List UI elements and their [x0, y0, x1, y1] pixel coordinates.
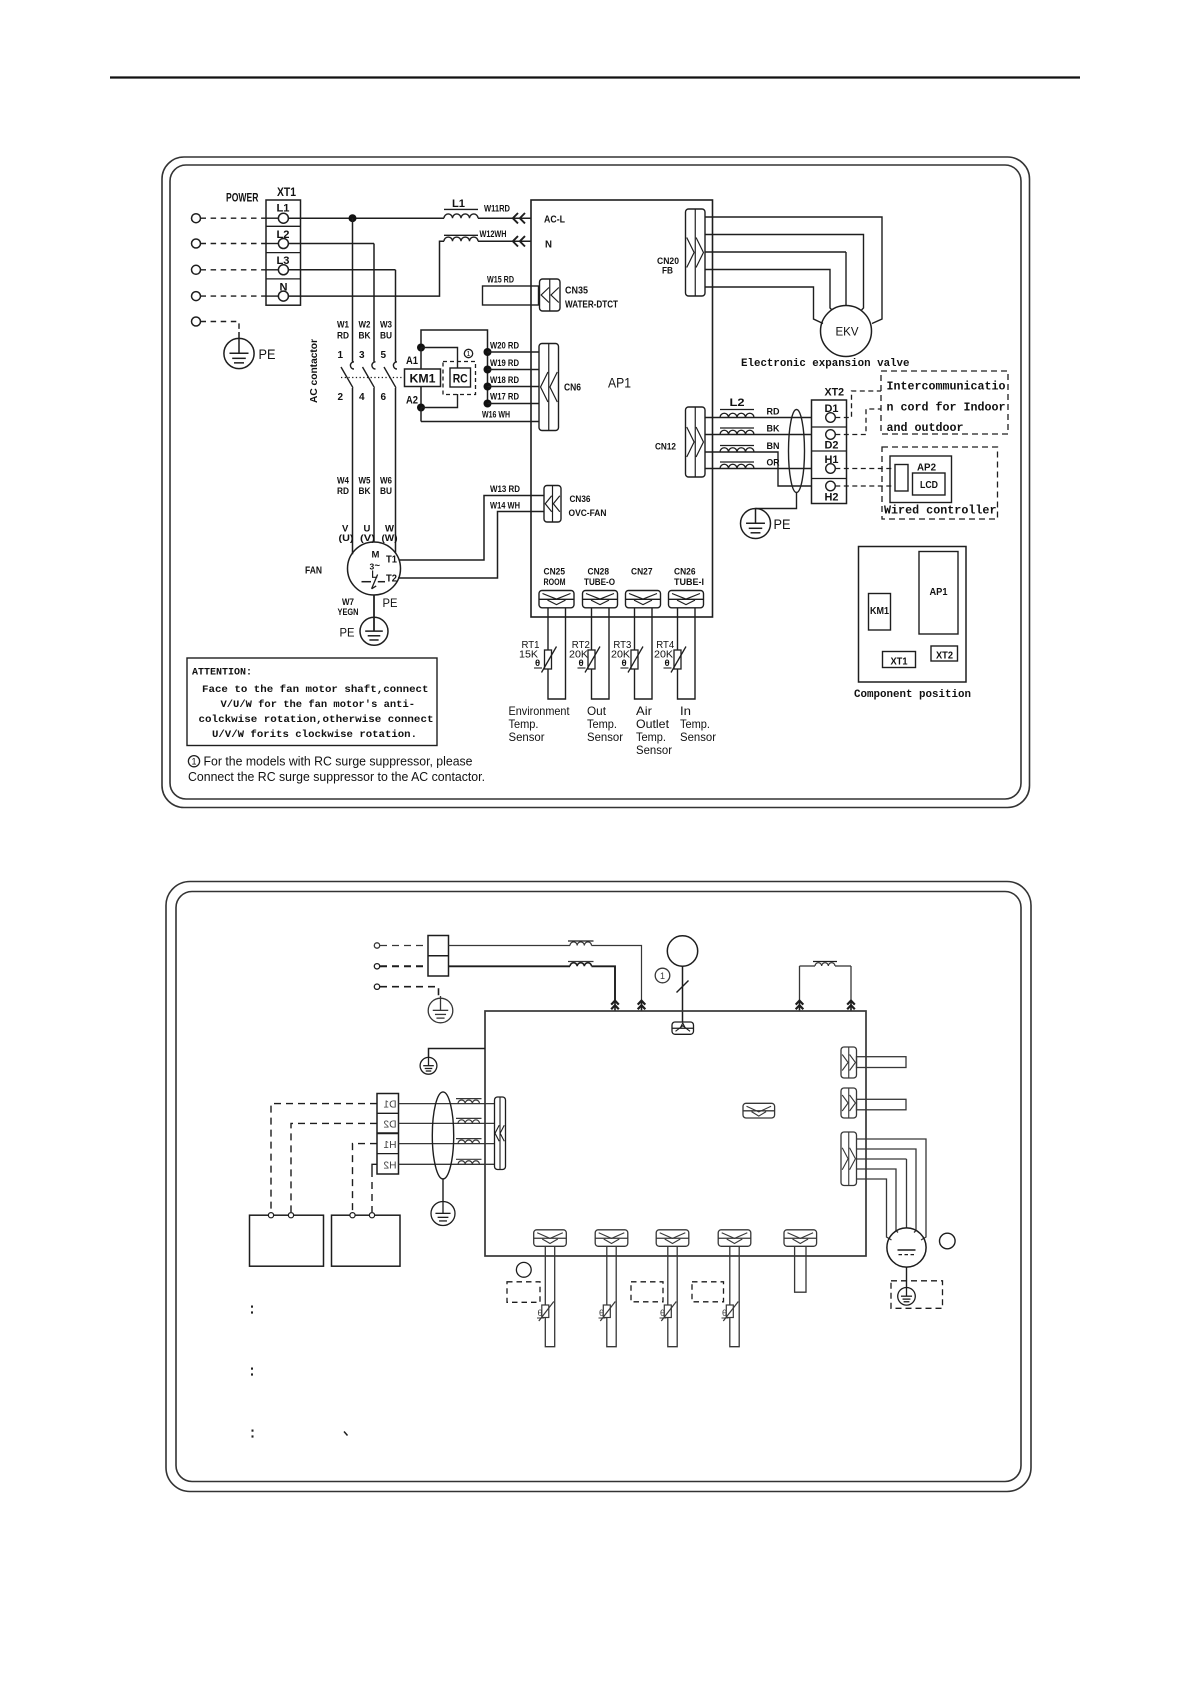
- svg-text:Intercommunicatio: Intercommunicatio: [887, 381, 1006, 394]
- svg-text:W15 RD: W15 RD: [487, 275, 514, 286]
- svg-text:Outlet: Outlet: [636, 717, 670, 731]
- thermistor (bottom 4): [726, 1305, 733, 1318]
- svg-text:Component position: Component position: [854, 689, 971, 701]
- bottom panel inner border: [176, 892, 1021, 1482]
- label pin D2 (mirrored): [383, 1120, 396, 1131]
- svg-text:PE: PE: [774, 516, 791, 532]
- svg-text:XT1: XT1: [891, 657, 908, 668]
- wire sensor probe 5 (bottom): [795, 1246, 806, 1292]
- connector (board mid, aux): [743, 1103, 775, 1118]
- wire dashed D2 to intercom box: [835, 409, 881, 435]
- wire L1 to inductor: [288, 217, 444, 219]
- wire W19 RD: [488, 369, 540, 371]
- wire dashed H2 to AP2: [835, 485, 895, 487]
- note box intercommunication cord: [881, 371, 1008, 434]
- connector CN6: [539, 344, 559, 431]
- wire L2 to W2 column: [288, 243, 374, 245]
- svg-text:Wired controller: Wired controller: [884, 505, 997, 518]
- dashed label box (sensor 1): [507, 1282, 540, 1303]
- wire dashed L1 input: [201, 217, 267, 219]
- svg-text:TUBE-I: TUBE-I: [674, 577, 704, 588]
- svg-text:W16 WH: W16 WH: [482, 410, 510, 421]
- svg-text:W12WH: W12WH: [480, 229, 507, 240]
- arrow into box (b2): [611, 1001, 619, 1005]
- svg-text:θ: θ: [722, 1308, 727, 1318]
- component position outline: [859, 547, 967, 683]
- svg-text:OVC-FAN: OVC-FAN: [569, 508, 607, 519]
- node input terminal b1: [374, 943, 379, 948]
- thermistor RT1: [545, 650, 552, 669]
- label AC contactor: [308, 339, 320, 403]
- connector CN27: [626, 591, 661, 608]
- wire dashed H1 drop: [353, 1144, 378, 1212]
- wire W1 column upper: [352, 218, 354, 362]
- note mark circled-1 (bottom): [655, 968, 670, 983]
- component position AP1: [919, 552, 958, 635]
- wire comm row 3 (bottom): [399, 1143, 495, 1145]
- wire T2 to CN36 (W14): [398, 512, 544, 579]
- svg-text:A1: A1: [406, 355, 418, 367]
- connector (board left, comm): [495, 1097, 506, 1170]
- board AP2 outline: [890, 456, 952, 503]
- svg-text:AP1: AP1: [608, 376, 631, 391]
- wire dashed L2 input: [201, 243, 267, 245]
- wire sensor probe 3 (bottom): [668, 1246, 677, 1346]
- svg-text:2: 2: [337, 392, 343, 403]
- svg-text:W1: W1: [337, 320, 350, 331]
- terminal XT1 L2: [278, 239, 288, 249]
- svg-text:Temp.: Temp.: [509, 717, 539, 731]
- board AP1 outline: [531, 200, 713, 617]
- wire W17 RD: [488, 403, 540, 405]
- connector CN35: [540, 279, 561, 311]
- connector on AP2: [895, 465, 908, 492]
- svg-text:In: In: [680, 704, 691, 718]
- svg-text:θ: θ: [599, 1308, 604, 1318]
- wire A2 down to W16: [420, 408, 422, 422]
- wire KM1 to A2: [420, 387, 422, 408]
- junction dot W18: [484, 383, 492, 391]
- svg-text:PE: PE: [340, 626, 355, 640]
- wire EKV 4: [705, 270, 832, 311]
- svg-text:BU: BU: [380, 331, 392, 342]
- svg-text:PE: PE: [259, 346, 276, 362]
- wire dashed input b3: [380, 987, 439, 996]
- indoor unit box 2 (bottom): [332, 1215, 401, 1266]
- thermistor (bottom 2): [603, 1305, 610, 1318]
- ferrite ring (CN12 wires): [789, 410, 805, 493]
- connector CN36: [544, 486, 561, 523]
- ground (power input, bottom): [428, 998, 453, 1023]
- component position XT2: [931, 646, 958, 661]
- svg-text:H2: H2: [825, 492, 839, 504]
- svg-text:1: 1: [467, 351, 471, 358]
- svg-text:AP2: AP2: [917, 463, 936, 474]
- connector CN12: [686, 407, 706, 477]
- junction dot W19: [484, 366, 492, 374]
- connector CN28: [583, 591, 618, 608]
- svg-text:Sensor: Sensor: [509, 730, 545, 744]
- svg-text:AC-L: AC-L: [544, 215, 565, 226]
- svg-text:BK: BK: [359, 331, 371, 342]
- wire stub 2: [857, 1099, 907, 1110]
- svg-text:W2: W2: [359, 320, 371, 331]
- junction dot W17: [484, 400, 492, 408]
- svg-text:W18 RD: W18 RD: [490, 375, 519, 386]
- label pin H2 (mirrored): [383, 1160, 396, 1171]
- svg-text:T2: T2: [386, 574, 397, 585]
- ground (ferrite, bottom): [431, 1202, 455, 1226]
- pin circle box2 b: [369, 1213, 374, 1218]
- terminal block XT1: [266, 200, 301, 305]
- valve EKV: [821, 306, 872, 357]
- contactor KM1 pole 2: [372, 362, 376, 369]
- wire W3 column lower: [395, 388, 397, 553]
- thermistor (bottom 1): [542, 1305, 549, 1318]
- ground (motor, bottom): [898, 1288, 916, 1306]
- svg-text:W20 RD: W20 RD: [490, 341, 519, 352]
- svg-text:1: 1: [660, 971, 665, 981]
- svg-text:YEGN: YEGN: [338, 607, 359, 618]
- connector (bottom sensor 3): [656, 1230, 689, 1247]
- connector (box top, compressor): [672, 1022, 694, 1034]
- dashed label box (sensor 3): [631, 1282, 663, 1302]
- thermistor RT3: [631, 650, 638, 669]
- svg-text:20K: 20K: [569, 650, 588, 661]
- contactor KM1 pole 1: [350, 362, 354, 369]
- svg-text:L2: L2: [730, 397, 745, 409]
- terminal block XT2: [812, 400, 847, 504]
- svg-text:V/U/W for the fan motor's anti: V/U/W for the fan motor's anti-: [221, 699, 416, 711]
- terminal XT1 N: [278, 291, 288, 301]
- svg-text:D2: D2: [383, 1120, 396, 1131]
- wire sensor probe 1 (bottom): [545, 1246, 554, 1346]
- svg-text:θ: θ: [538, 1308, 543, 1318]
- svg-text:XT1: XT1: [277, 185, 296, 199]
- wire compressor to connector: [682, 966, 684, 1022]
- wire ferrite to PE: [756, 493, 797, 509]
- wire sensor probe 2 (bottom): [607, 1246, 616, 1346]
- compressor circle (bottom): [667, 936, 697, 966]
- svg-text:1: 1: [337, 350, 343, 361]
- wire W1 column lower: [352, 388, 354, 554]
- terminal XT2 D2: [826, 430, 836, 440]
- svg-text:20K: 20K: [611, 650, 630, 661]
- wire dashed input b1: [380, 945, 428, 947]
- svg-text:OR: OR: [767, 458, 780, 469]
- node POWER input terminal 3: [192, 265, 201, 274]
- connector (right stub 2): [841, 1088, 857, 1118]
- wire input b2 to box: [449, 965, 571, 967]
- wire A1 to KM1: [420, 348, 422, 370]
- wire W2 column lower: [373, 388, 375, 542]
- wire dashed PE input: [201, 322, 240, 334]
- bottom panel outer border: [166, 882, 1031, 1492]
- wire motor 5: [857, 1179, 892, 1240]
- svg-text:W17 RD: W17 RD: [490, 392, 519, 403]
- inductor (input b2): [570, 963, 592, 967]
- wire A1 to RC: [421, 348, 458, 369]
- thermistor RT2: [588, 650, 595, 669]
- note tick mark: [344, 1432, 348, 1436]
- arrow into box (b1): [638, 1001, 646, 1005]
- svg-text:Electronic expansion valve: Electronic expansion valve: [741, 358, 910, 370]
- svg-text:CN28: CN28: [588, 567, 610, 578]
- svg-text:15K: 15K: [519, 650, 538, 661]
- pin circle box2 a: [350, 1213, 355, 1218]
- svg-text:Environment: Environment: [509, 704, 571, 718]
- wire motor 1: [857, 1139, 927, 1240]
- terminal XT2 H2: [826, 481, 836, 491]
- water sensor cable W15: [483, 286, 539, 305]
- svg-text:5: 5: [380, 350, 386, 361]
- svg-text:W5: W5: [359, 476, 372, 487]
- wire dashed N input: [201, 295, 267, 297]
- motor circle (bottom): [887, 1228, 926, 1267]
- terminal block (bottom left): [377, 1094, 399, 1175]
- svg-text:KM1: KM1: [410, 374, 437, 386]
- connector CN20: [686, 209, 706, 296]
- wire T1 to CN36 (W13): [399, 496, 545, 561]
- top panel outer border: [162, 157, 1030, 808]
- terminal XT2 D1: [826, 413, 836, 423]
- motor FAN: [348, 542, 401, 595]
- wire dashed D1 drop: [271, 1104, 377, 1212]
- pin circle box1 b: [288, 1213, 293, 1218]
- wire OR + inductor: [705, 468, 812, 470]
- svg-text:Air: Air: [636, 704, 652, 718]
- note mark circled-1 (footnote): [188, 756, 199, 767]
- inductor loop (top right): [800, 965, 816, 967]
- wire ferrite to ground (bottom): [442, 1179, 444, 1202]
- ground PE (XT2): [741, 509, 771, 539]
- svg-text:(W): (W): [382, 533, 398, 544]
- coil KM1: [405, 369, 441, 387]
- node POWER input terminal 4: [192, 292, 201, 301]
- svg-text:20K: 20K: [654, 650, 673, 661]
- svg-text:XT2: XT2: [825, 387, 845, 399]
- suppressor RC: [450, 368, 471, 387]
- svg-text:Temp.: Temp.: [680, 717, 710, 731]
- wired controller dashed box: [882, 447, 998, 519]
- svg-text:L1: L1: [452, 198, 465, 210]
- wire dashed D1 to intercom box: [835, 391, 881, 418]
- node circle (right of motor): [940, 1233, 956, 1249]
- terminal XT2 H1: [826, 464, 836, 474]
- svg-text:RD: RD: [337, 331, 349, 342]
- svg-text:AC contactor: AC contactor: [308, 339, 320, 403]
- dashed label box (sensor 4): [692, 1282, 724, 1302]
- svg-text:H1: H1: [383, 1140, 396, 1151]
- wire dashed D2 drop: [291, 1123, 377, 1212]
- svg-text:W14 WH: W14 WH: [490, 501, 520, 512]
- svg-text:RD: RD: [767, 407, 780, 418]
- svg-text:U/V/W forits clockwise rotatio: U/V/W forits clockwise rotation.: [212, 729, 417, 741]
- svg-text:BK: BK: [767, 424, 780, 435]
- svg-text:LCD: LCD: [920, 480, 938, 491]
- arrow into box (loop right): [847, 1001, 855, 1005]
- svg-text:CN26: CN26: [674, 567, 696, 578]
- connector (right stub 1): [841, 1047, 857, 1078]
- svg-text:4: 4: [359, 392, 365, 403]
- svg-text:CN27: CN27: [631, 567, 653, 578]
- wire EKV 1: [705, 217, 882, 324]
- contactor KM1 pole 3: [393, 362, 397, 369]
- svg-text:BU: BU: [380, 486, 392, 497]
- svg-text:POWER: POWER: [226, 191, 259, 205]
- connector (right motor): [841, 1132, 857, 1186]
- ground dashed box (motor): [891, 1281, 943, 1309]
- thermistor RT4: [674, 650, 681, 669]
- svg-text:W11RD: W11RD: [484, 204, 510, 215]
- wire W18 RD: [488, 386, 540, 388]
- svg-text:TUBE-O: TUBE-O: [584, 577, 615, 588]
- svg-text:Temp.: Temp.: [587, 717, 617, 731]
- svg-text:Connect the RC surge suppresso: Connect the RC surge suppressor to the A…: [188, 769, 485, 784]
- wire sensor probe 4 (bottom): [730, 1246, 739, 1346]
- wire KM1 loop top: [421, 330, 488, 404]
- node input terminal b2: [374, 964, 379, 969]
- wire board PE (bottom): [429, 1049, 486, 1058]
- wire EKV 3: [705, 251, 846, 253]
- display LCD: [913, 473, 946, 495]
- wire BK + inductor: [705, 434, 812, 436]
- connector (bottom sensor 5): [784, 1230, 817, 1247]
- svg-text:A2: A2: [406, 395, 418, 407]
- wire EKV 2: [705, 235, 864, 311]
- connector CN26: [669, 591, 704, 608]
- svg-text:W3: W3: [380, 320, 392, 331]
- svg-text:~: ~: [375, 561, 381, 572]
- pin circle box1 a: [268, 1213, 273, 1218]
- indoor unit box 1 (bottom): [250, 1215, 324, 1266]
- motor symbol bars: [898, 1249, 916, 1251]
- svg-text:ATTENTION:: ATTENTION:: [192, 667, 252, 679]
- wire motor 3: [857, 1158, 907, 1160]
- wire EKV 5: [705, 287, 823, 324]
- node input terminal b3: [374, 984, 379, 989]
- inductor (input b1): [570, 942, 592, 946]
- wire sensor RT2 pair: [592, 608, 610, 699]
- connector (bottom sensor 2): [595, 1230, 628, 1247]
- header rule: [110, 76, 1080, 78]
- svg-text:FB: FB: [662, 266, 673, 277]
- suppressor RC dashed box: [443, 362, 476, 395]
- junction dot L1/W1: [349, 214, 357, 222]
- wire comm row 4 (bottom): [399, 1163, 495, 1165]
- node POWER input terminal 5 (PE): [192, 317, 201, 326]
- connector CN25: [539, 591, 574, 608]
- motor thermal protector symbol: [373, 571, 378, 578]
- svg-text:W6: W6: [380, 476, 392, 487]
- wire XT1 cell stubs: [266, 217, 278, 219]
- arrows N input: [520, 236, 525, 246]
- wire RD + inductor: [705, 417, 812, 419]
- wire stub 1: [857, 1057, 907, 1068]
- svg-text:1: 1: [191, 756, 196, 766]
- svg-text:BN: BN: [767, 441, 780, 452]
- terminal XT1 L3: [278, 265, 288, 275]
- main board outline (bottom): [485, 1011, 866, 1256]
- svg-text:and outdoor: and outdoor: [887, 422, 964, 435]
- wire dashed input b2: [380, 965, 428, 967]
- wire N inductor to AP1 N: [478, 240, 531, 242]
- svg-text:Sensor: Sensor: [636, 743, 672, 757]
- inductor W12: [444, 237, 478, 241]
- junction dot A2: [417, 404, 425, 412]
- wire W3 column upper: [395, 270, 397, 362]
- svg-text:EKV: EKV: [836, 327, 859, 339]
- arrows AC-L input: [520, 213, 525, 223]
- wire BN + inductor: [705, 452, 812, 486]
- svg-text:CN12: CN12: [655, 442, 676, 453]
- wire A2 to RC: [421, 394, 458, 408]
- connector (bottom sensor 1): [534, 1230, 567, 1247]
- wire N to inductor: [288, 241, 444, 296]
- svg-text:CN25: CN25: [544, 567, 566, 578]
- svg-text:M: M: [372, 550, 380, 561]
- note mark circled-1 (RC): [464, 349, 472, 357]
- connector (bottom sensor 4): [718, 1230, 751, 1247]
- contactor linkage dotted line: [341, 377, 405, 379]
- svg-text:T1: T1: [386, 555, 397, 566]
- inductor L1: [444, 214, 478, 218]
- svg-text:H2: H2: [383, 1160, 396, 1171]
- wire L1 inductor to AP1 AC-L: [478, 217, 531, 219]
- svg-text:D1: D1: [383, 1100, 396, 1111]
- junction dot A1: [417, 344, 425, 352]
- wire sensor RT4 pair: [678, 608, 696, 699]
- node circle (sensor 1): [516, 1262, 531, 1277]
- wire motor 4: [857, 1169, 899, 1233]
- wire FAN PE: [373, 595, 375, 631]
- svg-text:n cord for Indoor: n cord for Indoor: [887, 402, 1006, 415]
- component position KM1: [869, 594, 891, 631]
- wire W20 RD: [488, 351, 540, 353]
- wire input b1 to box: [449, 945, 571, 947]
- svg-text:(U): (U): [339, 533, 354, 544]
- top panel inner border: [170, 165, 1021, 799]
- svg-text:CN36: CN36: [570, 494, 591, 505]
- wire sensor RT3 pair: [635, 608, 653, 699]
- junction dot W20: [484, 348, 492, 356]
- svg-text:W4: W4: [337, 476, 350, 487]
- svg-text:colckwise rotation,otherwise c: colckwise rotation,otherwise connect: [199, 714, 434, 726]
- svg-text:BK: BK: [359, 486, 371, 497]
- svg-text:AP1: AP1: [930, 587, 948, 598]
- svg-text:CN6: CN6: [564, 383, 581, 394]
- ferrite ring (bottom): [432, 1092, 453, 1179]
- svg-text:RD: RD: [337, 486, 349, 497]
- component position XT1: [883, 652, 916, 668]
- wire L3 to W3 column: [288, 269, 395, 271]
- wire W2 column upper: [373, 244, 375, 362]
- svg-text:Face to the fan motor shaft,co: Face to the fan motor shaft,connect: [202, 684, 429, 696]
- svg-text:Out: Out: [587, 704, 607, 718]
- wire W16 WH: [421, 421, 539, 423]
- label pin D1 (mirrored): [383, 1100, 396, 1111]
- wire sensor RT1 pair: [548, 608, 566, 699]
- attention box: [187, 658, 437, 746]
- ground (board PE, bottom): [420, 1057, 437, 1074]
- ground PE (power input): [224, 338, 254, 368]
- terminal XT1 L1: [278, 213, 288, 223]
- ground PE (fan): [360, 617, 388, 645]
- arrow into box (loop left): [796, 1001, 804, 1005]
- svg-text:For the models with RC surge s: For the models with RC surge suppressor,…: [204, 754, 473, 769]
- svg-text:Sensor: Sensor: [680, 730, 716, 744]
- svg-text:6: 6: [380, 392, 386, 403]
